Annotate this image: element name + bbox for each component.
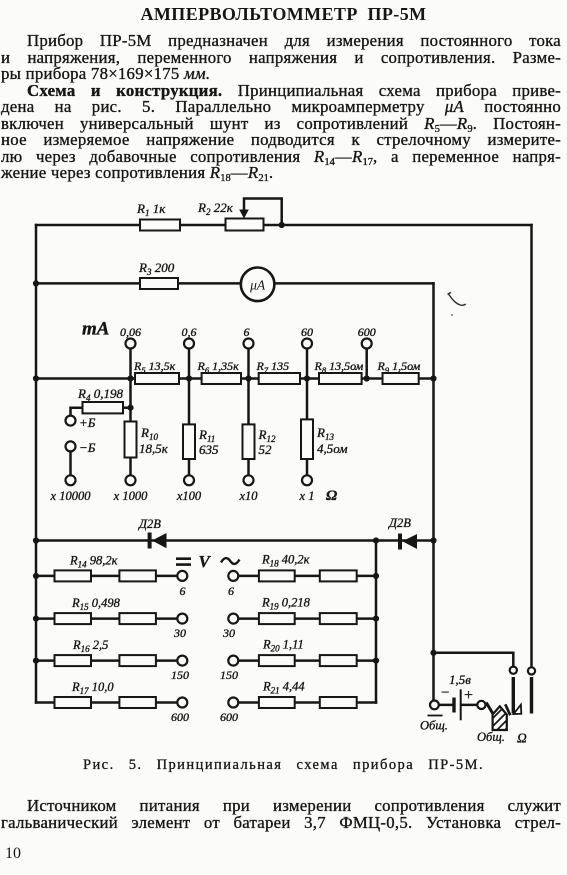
svg-text:x 1000: x 1000: [113, 489, 148, 503]
svg-text:6: 6: [180, 584, 186, 598]
junction left bus / uA row: [33, 280, 39, 286]
svg-text:R4 0,198: R4 0,198: [77, 386, 123, 403]
resistor R13: [301, 419, 313, 459]
svg-text:18,5к: 18,5к: [139, 441, 169, 456]
battery minus plate: [452, 698, 455, 713]
terminal AC 6: [228, 571, 238, 581]
resistor R5: [135, 373, 179, 384]
paragraph 2: [1, 83, 561, 100]
schematic text labels: [50, 200, 527, 746]
resistor R18 (two sections): [259, 570, 295, 581]
svg-text:R15 0,498: R15 0,498: [71, 596, 121, 612]
terminal AC 30: [228, 614, 238, 624]
svg-text:R18 40,2к: R18 40,2к: [261, 553, 310, 569]
wire left bus vertical: [35, 225, 38, 703]
svg-text:Ω: Ω: [326, 488, 337, 504]
resistor R4: [83, 402, 124, 413]
junction R4 right / R10 branch: [127, 405, 133, 411]
probe plug (hatched): [488, 700, 513, 737]
svg-text:x100: x100: [176, 489, 202, 503]
battery plus plate: [460, 689, 462, 720]
svg-text:150: 150: [171, 668, 189, 682]
junction left bus / diode row: [33, 537, 39, 543]
svg-text:Общ.: Общ.: [477, 730, 505, 744]
svg-text:R10: R10: [140, 425, 158, 442]
wire AC row 30: [238, 617, 376, 620]
scan artifact stroke: [448, 292, 466, 305]
terminal 0,06: [126, 339, 136, 349]
svg-text:R13: R13: [316, 425, 334, 442]
junction diode row / mid vertical: [430, 537, 436, 543]
wire AC row 150: [238, 659, 376, 662]
wire battery plus lead: [462, 704, 478, 707]
junction shunt bus tap 0,06: [127, 375, 133, 381]
svg-text:R16 2,5: R16 2,5: [72, 638, 108, 654]
svg-text:x 1: x 1: [299, 489, 315, 503]
terminal probe left: [510, 667, 517, 674]
svg-text:600: 600: [171, 710, 189, 724]
diode D2 (right, Д2В): [398, 534, 417, 550]
svg-text:635: 635: [199, 442, 219, 457]
wire DC row 6: [36, 575, 177, 578]
svg-text:Д2В: Д2В: [138, 517, 161, 531]
terminal x1: [302, 475, 312, 485]
wire right outer vertical: [530, 225, 533, 667]
svg-text:0,6: 0,6: [182, 325, 197, 339]
svg-text:30: 30: [222, 626, 235, 640]
resistor R14 (two sections): [55, 570, 92, 581]
svg-text:6: 6: [244, 325, 250, 339]
paragraph 1: [1, 33, 561, 50]
terminal AC 150: [228, 656, 238, 666]
resistor R21 (two sections): [259, 697, 295, 708]
svg-text:600: 600: [220, 710, 238, 724]
probe pin right (thick): [530, 677, 533, 714]
svg-text:mA: mA: [82, 319, 109, 340]
resistor R15 (two sections): [55, 613, 92, 624]
svg-text:−: −: [441, 685, 449, 701]
junction AC bus row 30: [373, 616, 379, 622]
svg-text:600: 600: [358, 325, 376, 339]
terminal DC 150: [177, 656, 187, 666]
wire stub terminal 60: [306, 348, 309, 379]
wire shunt bus R5-R9: [36, 377, 434, 380]
schematic SVG: [0, 190, 567, 757]
wire DC row 30: [36, 617, 177, 620]
terminal -B: [66, 441, 76, 451]
resistor R20 (two sections): [259, 655, 295, 666]
figure caption: [0, 757, 567, 774]
svg-text:Общ.: Общ.: [420, 719, 448, 733]
junction left bus / DC row 150: [33, 658, 39, 664]
svg-text:R8 13,5ом: R8 13,5ом: [314, 359, 364, 375]
wire DC row 150: [36, 659, 177, 662]
scan speck: [451, 314, 453, 316]
wire R4 left lead to +B: [71, 408, 83, 415]
wire branch R10: [129, 379, 132, 476]
meter uA circle: [241, 268, 275, 302]
junction left bus / DC row 30: [33, 616, 39, 622]
junction left bus / DC row 6: [33, 573, 39, 579]
probe jack triangle: [514, 705, 522, 714]
junction shunt bus tap 0,6: [186, 375, 192, 381]
resistor R19 (two sections): [259, 613, 295, 624]
svg-text:Ω: Ω: [517, 731, 527, 746]
svg-text:R19 0,218: R19 0,218: [261, 596, 311, 612]
resistor R11: [183, 424, 195, 459]
svg-text:R20 1,11: R20 1,11: [262, 638, 304, 654]
resistor R2 (potentiometer body): [226, 219, 264, 231]
junction shunt bus tap 6: [245, 375, 251, 381]
terminal 600 (mA): [362, 339, 372, 349]
svg-text:+Б: +Б: [79, 415, 96, 430]
page number: [5, 845, 21, 863]
junction AC bus row 150: [373, 658, 379, 664]
terminal x1000: [126, 475, 136, 485]
svg-text:60: 60: [301, 325, 313, 339]
resistor R3: [140, 278, 178, 289]
title: [0, 4, 567, 25]
wire microammeter row: [36, 282, 434, 285]
svg-text:0,06: 0,06: [120, 325, 141, 339]
wire battery minus lead: [439, 704, 453, 707]
svg-text:30: 30: [173, 626, 186, 640]
label ~: [221, 558, 240, 564]
resistor R10: [125, 422, 137, 458]
terminal x10: [244, 475, 254, 485]
svg-text:R7 135: R7 135: [256, 359, 290, 375]
wire AC row 6: [238, 575, 376, 578]
terminal DC 30: [177, 614, 187, 624]
svg-text:52: 52: [259, 442, 273, 457]
wire AC row 600: [238, 701, 376, 704]
resistor R1: [140, 220, 180, 231]
svg-text:R6 1,35к: R6 1,35к: [197, 359, 240, 375]
svg-text:V: V: [199, 552, 212, 571]
junction battery branch / mid vertical: [430, 650, 436, 656]
terminal +B: [66, 416, 76, 426]
terminal x100: [184, 475, 194, 485]
wire diode row: [36, 539, 434, 542]
svg-text:R5 13,5к: R5 13,5к: [133, 359, 176, 375]
terminal 0,6: [184, 339, 194, 349]
junction AC bus row 6: [373, 573, 379, 579]
label = V: [176, 559, 191, 565]
resistor R7: [259, 373, 300, 384]
svg-text:x10: x10: [238, 489, 258, 503]
op: meter microammeter: [241, 268, 275, 302]
terminal 60: [302, 339, 312, 349]
wire branch R12: [247, 379, 250, 476]
wire top row (R1 R2 row): [36, 224, 532, 227]
svg-text:6: 6: [228, 584, 234, 598]
probe plug slant stroke right: [505, 704, 510, 715]
wire stub terminal 0,6: [188, 348, 191, 379]
junction left bus / shunt bus: [33, 375, 39, 381]
terminal DC 600: [177, 698, 187, 708]
wire -B to x10000 terminal: [69, 451, 72, 475]
terminal 6 (mA): [244, 339, 254, 349]
R2 wiper arrow: [243, 211, 245, 213]
label Общ (battery minus terminal) overline: [428, 715, 443, 717]
junction diode row / AC bus: [373, 537, 379, 543]
svg-text:R14 98,2к: R14 98,2к: [69, 554, 118, 570]
junction R2 wiper / top row: [279, 222, 285, 228]
terminal DC 6: [177, 571, 187, 581]
wire stub terminal 6: [247, 348, 250, 379]
svg-text:μА: μА: [249, 278, 266, 293]
wire R2 wiper loop: [244, 199, 282, 226]
svg-text:1,5в: 1,5в: [449, 672, 471, 687]
svg-text:−Б: −Б: [79, 440, 96, 455]
junction shunt bus tap 600: [364, 375, 370, 381]
resistor R12: [243, 424, 255, 459]
wire DC row 600: [36, 701, 177, 704]
svg-text:Д2В: Д2В: [388, 516, 411, 530]
svg-text:x 10000: x 10000: [50, 489, 92, 503]
wire branch R11: [188, 379, 191, 476]
svg-text:R3 200: R3 200: [138, 260, 175, 277]
wire R4 right lead: [123, 406, 131, 409]
svg-text:+: +: [464, 687, 473, 704]
resistor R8: [319, 373, 362, 384]
wire branch R13: [306, 379, 309, 476]
wire stub terminal 600: [365, 348, 368, 379]
wire stub terminal 0,06: [129, 348, 132, 379]
svg-text:R21 4,44: R21 4,44: [262, 680, 305, 696]
terminal AC 600: [228, 698, 238, 708]
diode D1 (left, Д2В): [148, 533, 167, 549]
svg-text:R9 1,5ом: R9 1,5ом: [377, 359, 421, 375]
probe pin left (thick): [512, 677, 515, 714]
terminal battery plus: [477, 701, 485, 709]
probe plug slant stroke left: [486, 703, 493, 714]
svg-text:150: 150: [220, 668, 238, 682]
junction shunt bus tap 60: [304, 375, 310, 381]
resistor R16 (two sections): [55, 655, 92, 666]
svg-text:R2 22к: R2 22к: [197, 200, 234, 217]
svg-text:4,5ом: 4,5ом: [317, 441, 348, 456]
resistor R6: [202, 373, 241, 384]
terminal circles: [66, 339, 536, 710]
paragraph 3: [1, 798, 561, 815]
junction shunt bus right end: [430, 375, 436, 381]
svg-text:R17 10,0: R17 10,0: [71, 680, 114, 696]
terminal battery minus (Общ): [430, 701, 439, 710]
svg-text:R1 1к: R1 1к: [136, 201, 166, 218]
resistor R9: [383, 373, 419, 384]
wire AC block right bus: [375, 541, 378, 703]
wire battery top branch: [434, 653, 514, 667]
resistor R17 (two sections): [55, 697, 92, 708]
wire mid-right vertical: [432, 283, 435, 700]
terminal probe right: [528, 667, 535, 674]
terminal x10000: [66, 475, 76, 485]
